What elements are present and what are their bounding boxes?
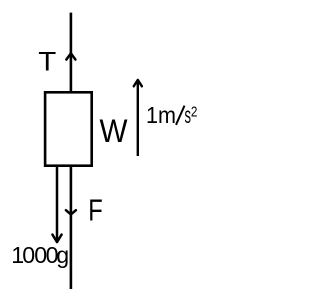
acceleration arrowhead xyxy=(134,80,142,86)
tension arrowhead T xyxy=(66,53,75,59)
svg-text:2: 2 xyxy=(191,103,198,120)
acceleration arrow line xyxy=(137,81,139,157)
string line (full vertical) xyxy=(70,13,73,289)
weight arrow line xyxy=(56,166,59,242)
svg-text:1m: 1m xyxy=(146,102,176,128)
svg-text:F: F xyxy=(88,193,103,228)
mass box xyxy=(45,92,92,165)
svg-text:W: W xyxy=(100,113,128,149)
svg-text:T: T xyxy=(38,47,56,77)
label slash of 1m/s2 xyxy=(176,106,185,125)
svg-text:1000g: 1000g xyxy=(11,242,69,268)
weight arrowhead xyxy=(52,235,61,243)
force arrowhead F xyxy=(66,210,76,214)
